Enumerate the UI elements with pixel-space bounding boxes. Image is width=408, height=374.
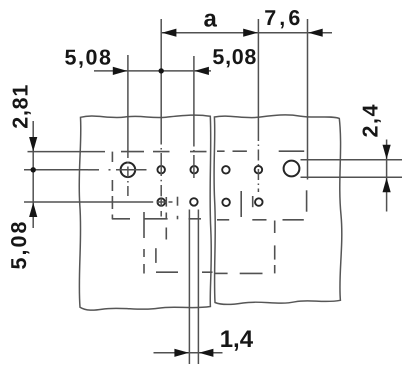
arrow 1,4 right bbox=[199, 349, 214, 357]
hole right row2 col1 bbox=[222, 199, 230, 207]
svg-text:7,6: 7,6 bbox=[264, 6, 300, 30]
label 5,08 top-right bbox=[212, 45, 256, 69]
dashed housing outline left board bbox=[112, 152, 213, 274]
centerline vertical through left mounting hole x=127.9 bbox=[127, 55, 129, 196]
arrow 2,4 top (down) bbox=[383, 145, 391, 160]
label 5,08 top-left bbox=[64, 45, 111, 69]
extension line vertical x=307.5 (right edge of housing, dim 7,6) bbox=[307, 19, 309, 180]
hole large left (mounting hole) bbox=[121, 163, 136, 178]
centerline horizontal row1 y=169.8 (left board) bbox=[24, 169, 147, 171]
hole right row1 col1 bbox=[222, 166, 230, 174]
hole right row2 col2 bbox=[255, 198, 263, 206]
arrow 2,81 top (down) bbox=[29, 137, 37, 152]
svg-text:1,4: 1,4 bbox=[220, 326, 254, 353]
arrow 5,08 bottom-left (up) bbox=[29, 203, 37, 218]
label 1,4 bbox=[220, 326, 254, 353]
extension line horizontal y=151.6 (housing top edge, dim 2,81) bbox=[28, 151, 106, 153]
dimension line vertical left x=33.2 (2,81 / 5,08) bbox=[32, 121, 34, 228]
hole large right (mounting hole) bbox=[284, 161, 300, 177]
arrow 5,08 right bbox=[194, 67, 209, 75]
arrow a left bbox=[162, 29, 177, 37]
hole left row1 col1 bbox=[157, 166, 165, 174]
board outline left (torn-edge PCB section) bbox=[79, 115, 211, 310]
dimension a: line y=32.7 from 161.2 to 258.2 bbox=[161, 32, 258, 34]
hole left row2 col2 bbox=[190, 198, 198, 206]
label 7,6 bbox=[264, 6, 300, 30]
centerline vertical col x=193.9 (extension for 5,08) bbox=[193, 56, 195, 178]
arrow 2,4 bottom (up) bbox=[383, 178, 391, 193]
hole right row1 col2 bbox=[255, 166, 263, 174]
dimension 5,08 top: line y=70.9 bbox=[94, 70, 211, 72]
label 2,4 rotated bbox=[359, 104, 383, 137]
centerline vertical col x=258.4 (extension for dim a / 7,6) bbox=[257, 19, 259, 192]
dimension 2,4 right: tangent extension lines and vertical dim line bbox=[301, 140, 403, 212]
svg-text:5,08: 5,08 bbox=[7, 221, 31, 269]
centerline horizontal row2 y=202 (left board, extension for 5,08) bbox=[24, 201, 173, 203]
board outline right (torn-edge PCB section) bbox=[214, 115, 342, 305]
dimension 7,6: line y=32.7 from 258.4 to 307.5 with tail bbox=[258, 32, 332, 34]
label 2,81 rotated bbox=[9, 85, 33, 129]
arrow 7,6 right bbox=[308, 29, 323, 37]
hole left row2 col1 (with center cross) bbox=[157, 198, 165, 206]
dot junction on 5,08 dimension at x=161.2 bbox=[159, 68, 164, 73]
svg-text:a: a bbox=[204, 6, 218, 33]
hole left row1 col2 bbox=[190, 166, 198, 174]
arrow a right / 7,6 left bbox=[243, 29, 258, 37]
arrow 1,4 left bbox=[174, 349, 189, 357]
dimension 1,4 bottom: tangent lines and dim line bbox=[154, 210, 223, 365]
label a bbox=[204, 6, 218, 33]
svg-text:5,08: 5,08 bbox=[212, 45, 256, 69]
svg-text:5,08: 5,08 bbox=[64, 45, 111, 69]
svg-text:2,4: 2,4 bbox=[359, 104, 383, 137]
dot junction on left dimension at y=169.8 bbox=[31, 167, 36, 172]
svg-text:2,81: 2,81 bbox=[9, 85, 33, 129]
dashed housing outline right board bbox=[215, 151, 307, 273]
arrow 5,08 left (tip at large hole center ext) bbox=[113, 67, 128, 75]
label 5,08 left rotated bbox=[7, 221, 31, 269]
centerline vertical col x=161.2 (extension for dim a / 5,08) bbox=[160, 19, 162, 217]
